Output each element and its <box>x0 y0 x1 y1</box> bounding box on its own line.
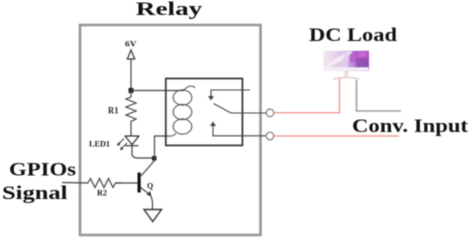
label: R2 <box>97 189 107 198</box>
label: R1 <box>108 106 119 116</box>
wire: 6V rail down to junction <box>130 59 132 91</box>
LED emission arrows <box>117 139 127 151</box>
wire: R2 to base <box>116 182 138 184</box>
relay coil L1 <box>168 86 195 136</box>
6V supply arrow <box>127 50 134 59</box>
svg-text:DC Load: DC Load <box>309 25 398 46</box>
contact (NO) with up arrow <box>210 122 266 136</box>
wire: pink to DC load <box>274 78 340 113</box>
wire: LED cathode to node B <box>132 146 154 158</box>
svg-text:Conv. Input: Conv. Input <box>352 116 469 137</box>
label: GPIOs <box>9 159 76 180</box>
relay inner box <box>166 79 243 146</box>
label: Q <box>147 182 153 191</box>
terminal: top (common out) <box>266 109 274 117</box>
svg-text:LED1: LED1 <box>89 140 110 149</box>
wire: GPIO input to R2 <box>62 182 88 185</box>
label: Conv. Input <box>352 116 469 137</box>
label: DC Load <box>309 25 398 46</box>
junction: rail / coil feed <box>129 88 134 93</box>
wire: coil top feed <box>131 90 184 92</box>
svg-text:GPIOs: GPIOs <box>9 159 76 180</box>
label: LED1 <box>89 140 110 149</box>
resistor R2 <box>88 179 122 188</box>
transistor Q1 emitter with arrow <box>141 188 152 197</box>
terminal: bottom (NO out) <box>266 132 274 140</box>
svg-text:R1: R1 <box>108 106 119 116</box>
transistor Q1 base bar <box>138 173 141 193</box>
wire: pink to conv input <box>274 135 399 137</box>
junction node B <box>152 156 157 161</box>
ground symbol <box>144 210 162 222</box>
svg-text:R2: R2 <box>97 189 107 198</box>
DC load monitor image <box>324 51 370 80</box>
wire: emitter to ground <box>151 196 153 210</box>
contact stub (NC) with down arrow <box>208 90 250 101</box>
wire: collector from node B <box>141 158 155 176</box>
switch arm (common) <box>214 104 267 114</box>
label: 6V supply <box>125 40 137 49</box>
svg-text:6V: 6V <box>125 40 137 49</box>
svg-text:Q: Q <box>147 182 153 191</box>
wire: R1 to LED <box>130 122 132 136</box>
LED diode LED1 <box>125 136 140 146</box>
wire: node B up to coil bottom lead <box>155 136 169 158</box>
resistor R1 <box>126 91 136 123</box>
wire: gray conv input <box>357 80 402 111</box>
svg-text:Signal: Signal <box>2 183 68 204</box>
svg-text:Relay: Relay <box>136 0 203 20</box>
label: Signal <box>2 183 68 204</box>
title: Relay <box>136 0 203 20</box>
relay module outer box <box>80 25 261 235</box>
